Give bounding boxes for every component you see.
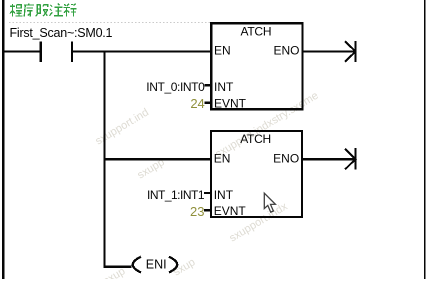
- U1 INT pin stub: [205, 84, 212, 86]
- char zhu: [50, 4, 63, 16]
- U1 EVNT pin stub: [205, 101, 212, 103]
- char shi: [63, 4, 76, 17]
- contact First_Scan~:SM0.1 right bar: [71, 41, 73, 62]
- U2 EVNT pin stub: [204, 209, 211, 211]
- svg-text:INT: INT: [214, 188, 234, 202]
- mouse cursor: [264, 193, 275, 212]
- svg-text:ENO: ENO: [273, 151, 299, 165]
- network comment title (Chinese glyphs drawn as strokes): [10, 4, 76, 17]
- dotted separator under comment: [9, 22, 210, 24]
- open branch arrow 1: [345, 41, 356, 62]
- watermark overlay (faint diagonal): [93, 90, 320, 284]
- svg-text:EVNT: EVNT: [214, 204, 247, 218]
- frame right border: [424, 0, 426, 279]
- svg-text:EN: EN: [214, 44, 231, 58]
- coil ENI left paren: [133, 257, 141, 273]
- wire: contact to U1 EN: [73, 50, 211, 52]
- contact First_Scan~:SM0.1 left bar: [40, 41, 42, 62]
- wire: U1 ENO out: [303, 50, 355, 52]
- svg-text:First_Scan~:SM0.1: First_Scan~:SM0.1: [10, 26, 113, 40]
- svg-text:ENO: ENO: [273, 44, 299, 58]
- svg-text:INT: INT: [214, 80, 234, 94]
- op block U2 ATCH box: [211, 131, 302, 217]
- svg-text:INT_0:INT0: INT_0:INT0: [146, 80, 205, 94]
- wire: rung2 to U2 EN: [105, 158, 212, 160]
- svg-text:EVNT: EVNT: [214, 96, 247, 110]
- coil ENI right paren: [169, 257, 177, 273]
- char xu: [24, 4, 34, 17]
- op block U1 ATCH box: [211, 23, 302, 109]
- wire: U2 ENO out: [303, 158, 355, 160]
- wire: branch corner to ENI coil: [103, 266, 131, 268]
- svg-text:23: 23: [190, 204, 204, 219]
- svg-text:ENI: ENI: [146, 258, 167, 272]
- U2 INT pin stub: [204, 192, 211, 194]
- svg-text:24: 24: [190, 96, 204, 111]
- svg-text:ATCH: ATCH: [241, 24, 272, 38]
- char duan: [36, 4, 48, 16]
- open branch arrow 2: [345, 148, 356, 169]
- svg-text:INT_1:INT1: INT_1:INT1: [147, 188, 205, 202]
- char cheng: [10, 4, 22, 17]
- wire: branch vertical to rung2 and coil: [103, 50, 105, 266]
- power rail left: [2, 0, 5, 279]
- wire: rail to contact: [3, 50, 40, 52]
